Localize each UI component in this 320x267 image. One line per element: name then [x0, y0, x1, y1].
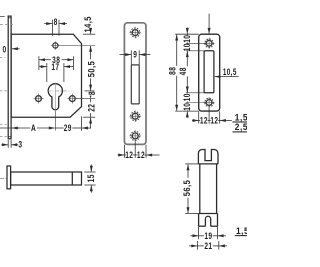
svg-text:19: 19 — [204, 231, 212, 241]
svg-text:10: 10 — [182, 43, 192, 51]
svg-text:10: 10 — [182, 103, 192, 111]
svg-text:12: 12 — [210, 116, 218, 126]
svg-text:22: 22 — [87, 103, 97, 111]
svg-text:2,5: 2,5 — [235, 122, 247, 132]
svg-text:21: 21 — [204, 241, 212, 251]
svg-text:10: 10 — [182, 93, 192, 101]
svg-text:88: 88 — [168, 67, 178, 75]
svg-text:10: 10 — [182, 35, 192, 43]
svg-text:50,5: 50,5 — [87, 61, 97, 77]
svg-text:48: 48 — [178, 67, 188, 75]
svg-text:14,5: 14,5 — [83, 16, 93, 32]
svg-text:1,5: 1,5 — [235, 112, 247, 122]
svg-text:1,5: 1,5 — [236, 226, 247, 236]
svg-text:8: 8 — [54, 17, 58, 27]
svg-text:3: 3 — [18, 139, 22, 149]
svg-text:12: 12 — [200, 116, 208, 126]
svg-text:12: 12 — [137, 150, 145, 160]
svg-text:0: 0 — [3, 44, 7, 54]
svg-text:10,5: 10,5 — [223, 67, 237, 77]
svg-text:8: 8 — [87, 91, 97, 95]
svg-text:12: 12 — [125, 150, 133, 160]
svg-text:15: 15 — [86, 174, 96, 182]
svg-text:56,5: 56,5 — [182, 180, 192, 196]
svg-text:A: A — [31, 123, 36, 133]
svg-text:17: 17 — [51, 62, 59, 72]
svg-text:9: 9 — [133, 50, 137, 60]
svg-text:29: 29 — [64, 123, 72, 133]
